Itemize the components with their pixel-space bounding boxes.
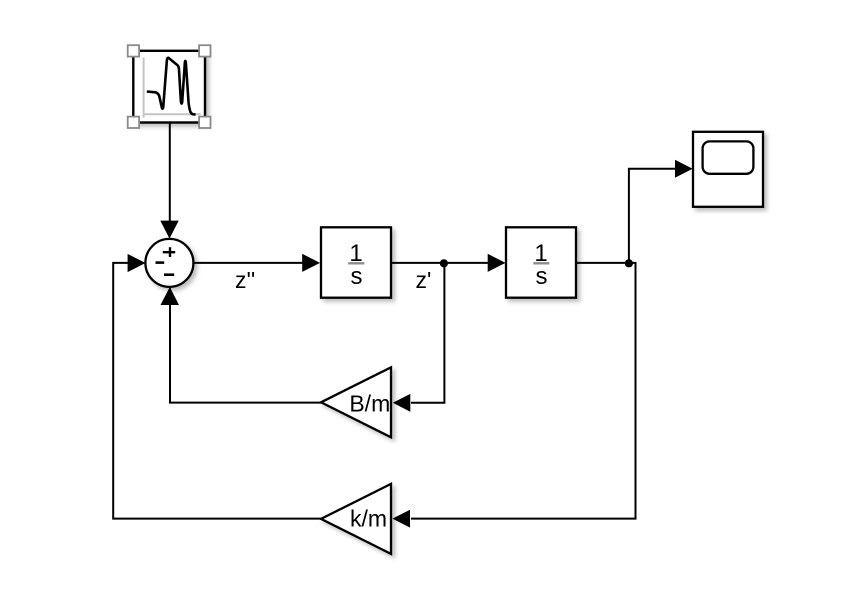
svg-text:s: s [351, 263, 363, 290]
arrowhead into sum left [128, 254, 146, 272]
selection handle bottom-left [128, 117, 139, 128]
selection handle top-right [199, 45, 210, 56]
wire integrator 1 to integrator 2 [391, 262, 489, 264]
svg-text:z'': z'' [235, 267, 255, 293]
gain k/m [321, 484, 391, 554]
scope block [693, 132, 763, 207]
wire node B up to scope [629, 169, 676, 263]
wire k/m output to sum left [113, 263, 321, 519]
integrator U1 value 1/s [348, 240, 364, 290]
wire B/m output to sum bottom [170, 288, 321, 403]
wire sum to integrator 1 [193, 262, 303, 264]
source block (signal builder) [133, 51, 205, 123]
wire node A down to B/m gain [411, 263, 444, 403]
svg-text:B/m: B/m [349, 391, 390, 417]
arrowhead into integrator 2 [488, 254, 506, 272]
sum minus bottom [164, 273, 174, 276]
sum plus sign [163, 247, 175, 257]
svg-text:z': z' [416, 267, 432, 293]
source block axes [143, 58, 201, 118]
junction node B dot [625, 259, 633, 267]
integrator U2 [506, 227, 576, 297]
gain B/m [321, 367, 391, 437]
svg-text:k/m: k/m [350, 506, 387, 532]
arrowhead into integrator 1 [302, 254, 320, 272]
source waveform [147, 58, 196, 115]
arrowhead into k/m gain [392, 510, 410, 528]
selection handle top-left [128, 45, 139, 56]
scope screen [703, 141, 754, 173]
arrowhead into sum bottom [161, 287, 180, 305]
svg-text:s: s [536, 263, 548, 290]
integrator U2 value 1/s [533, 240, 549, 290]
selection handle bottom-right [199, 117, 210, 128]
arrowhead into B/m gain [393, 394, 411, 412]
sum block [145, 239, 193, 287]
sum minus left [156, 261, 165, 264]
wire source to sum [169, 123, 171, 223]
wire integrator 2 output to k/m gain [411, 263, 636, 519]
arrowhead into sum top [160, 221, 178, 239]
arrowhead into scope [675, 160, 693, 178]
integrator U1 [321, 227, 391, 297]
junction node A dot [440, 259, 448, 267]
